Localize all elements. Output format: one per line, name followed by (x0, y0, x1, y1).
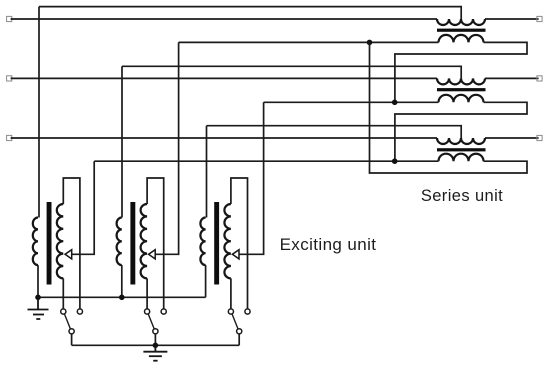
switch E3 contact B (245, 309, 250, 314)
exciting transformer E2 core (130, 202, 135, 285)
svg-text:Exciting unit: Exciting unit (280, 235, 377, 254)
switch E3 blade (232, 314, 238, 329)
wire: E3 primary bottom lead to ground bus (205, 265, 207, 297)
wire: T2 secondary right wrap to T3 secondary left (395, 102, 527, 161)
svg-text:Series unit: Series unit (421, 187, 503, 205)
exciting transformer E1 secondary winding (57, 204, 64, 278)
wire: E2 secondary bottom to switch contact A (146, 278, 148, 309)
wire: E2 primary bottom lead to ground bus (121, 265, 123, 297)
series transformer T2 core (437, 88, 486, 91)
switch E1 blade (64, 314, 70, 329)
series transformer T3 core (437, 148, 486, 151)
tap arrow E1 (65, 250, 72, 259)
wire: top bus from x39 to T1 primary center tap (39, 7, 461, 19)
node: E1 primary bottom on ground bus (35, 295, 41, 301)
wire: E3 pivot to bottom bus (238, 334, 240, 345)
exciting transformer E2 secondary winding (141, 204, 147, 278)
wire: E1 pivot to bottom bus (71, 334, 73, 345)
terminal output 1 (537, 16, 542, 21)
switch E1 contact A (61, 309, 66, 314)
wire: E1 secondary top hoop to switch contact B (63, 178, 80, 309)
node: E2 primary bottom on ground bus (119, 295, 125, 301)
wire: terminal 3 to T3 primary left end (11, 137, 437, 139)
tap arrow E3 (232, 250, 239, 259)
wire: T1 secondary right wrap to T2 secondary left (395, 42, 527, 102)
terminal input 3 (7, 135, 12, 140)
terminal output 3 (537, 135, 542, 140)
wire: T2 secondary left lead to x263.6 (264, 101, 439, 103)
exciting transformer E3 secondary winding (224, 204, 230, 278)
wire: E1 primary bottom lead to ground bus (37, 265, 39, 297)
wire: switch common bottom bus (72, 344, 240, 346)
exciting transformer E3 core (214, 202, 219, 285)
wire: E3 secondary bottom to switch contact A (230, 278, 232, 309)
wire: terminal 1 to T1 primary left end (11, 18, 437, 20)
terminal input 1 (7, 16, 12, 21)
wire: T3 primary center-tap feed from x206.5 (207, 126, 462, 138)
node: junction T2 wrap meets T3 secondary left (392, 158, 398, 164)
series transformer T2 primary winding (437, 78, 485, 84)
terminal input 2 (7, 76, 12, 81)
exciting transformer E3 primary winding (200, 218, 205, 266)
wire: terminal 2 to T2 primary left end (11, 77, 437, 79)
exciting transformer E1 primary winding (33, 218, 38, 266)
wire: T3 secondary left lead to x94.2 (94, 160, 438, 162)
switch E2 pivot (153, 329, 158, 334)
switch E3 contact A (228, 309, 233, 314)
node: junction on T1 secondary left lead (367, 40, 373, 46)
exciting transformer E2 primary winding (117, 218, 122, 266)
wire: T1 primary right end to output terminal 1 (485, 18, 539, 20)
wire: T3 primary right end to output terminal 3 (485, 137, 539, 139)
wire: T1 secondary left lead to x178.6 (179, 41, 439, 43)
terminal output 2 (537, 76, 542, 81)
wire: vertical feed x178.6 to E2 tap arrow (155, 42, 178, 254)
node: center ground junction (153, 343, 159, 349)
wire: vertical feed to exciting E3 primary top (206, 126, 208, 218)
tap arrow E2 (149, 250, 156, 259)
switch E3 pivot (237, 329, 242, 334)
series transformer T3 secondary winding (439, 154, 484, 162)
ground: center earth symbol (143, 345, 167, 360)
wire: E2 pivot to bottom bus (154, 334, 156, 345)
wire: T2 primary right end to output terminal 2 (485, 77, 539, 79)
wire: vertical feed to exciting E2 primary top (121, 66, 123, 217)
wire: T2 primary center-tap feed from x122 (122, 66, 461, 78)
series transformer T1 core (437, 29, 486, 32)
wire: vertical feed to exciting E1 primary top (38, 7, 40, 218)
wire: E2 secondary top hoop to switch contact B (147, 178, 164, 309)
series transformer T3 primary winding (437, 138, 485, 144)
exciting transformer E1 core (47, 202, 52, 285)
wire: vertical feed x94.2 to E1 tap arrow (72, 161, 95, 254)
series transformer T1 secondary winding (439, 35, 484, 43)
wire: ground bus across exciting primaries (38, 296, 206, 298)
switch E1 contact B (77, 309, 82, 314)
ground: left earth symbol (28, 297, 49, 319)
wire: E3 secondary top hoop to switch contact B (231, 178, 248, 309)
switch E1 pivot (69, 329, 74, 334)
wire: T3 secondary right wrap up to T1 secondary left junction (370, 42, 528, 173)
wire: E1 secondary bottom to switch contact A (62, 278, 64, 309)
series transformer T2 secondary winding (439, 95, 484, 102)
series transformer T1 primary winding (437, 19, 485, 25)
switch E2 blade (148, 314, 154, 329)
node: junction T1 wrap meets T2 secondary left (392, 100, 398, 106)
switch E2 contact B (161, 309, 166, 314)
wire: vertical feed x263.6 to E3 tap arrow (239, 102, 264, 254)
switch E2 contact A (145, 309, 150, 314)
